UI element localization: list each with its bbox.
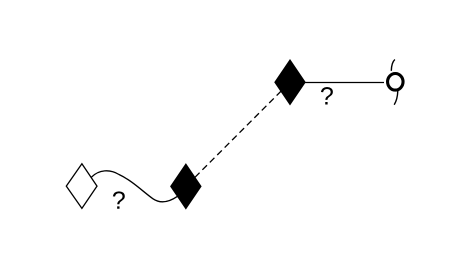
label: linkage question mark (upper) (321, 87, 333, 104)
node: middle black diamond residue (171, 164, 201, 208)
reducing-end lower squiggle (394, 91, 398, 105)
node: reducing-end circle (388, 74, 404, 91)
node: upper black diamond residue (275, 60, 305, 104)
wire: dashed linkage from middle diamond to upper diamond (186, 82, 290, 186)
reducing-end upper squiggle (391, 60, 395, 71)
label: linkage question mark (lower) (113, 191, 125, 208)
wire: solid linkage from upper diamond to reducing end (290, 82, 384, 84)
node: white diamond residue (66, 164, 97, 209)
wire: wavy linkage from white diamond to middle black diamond (91, 171, 177, 202)
